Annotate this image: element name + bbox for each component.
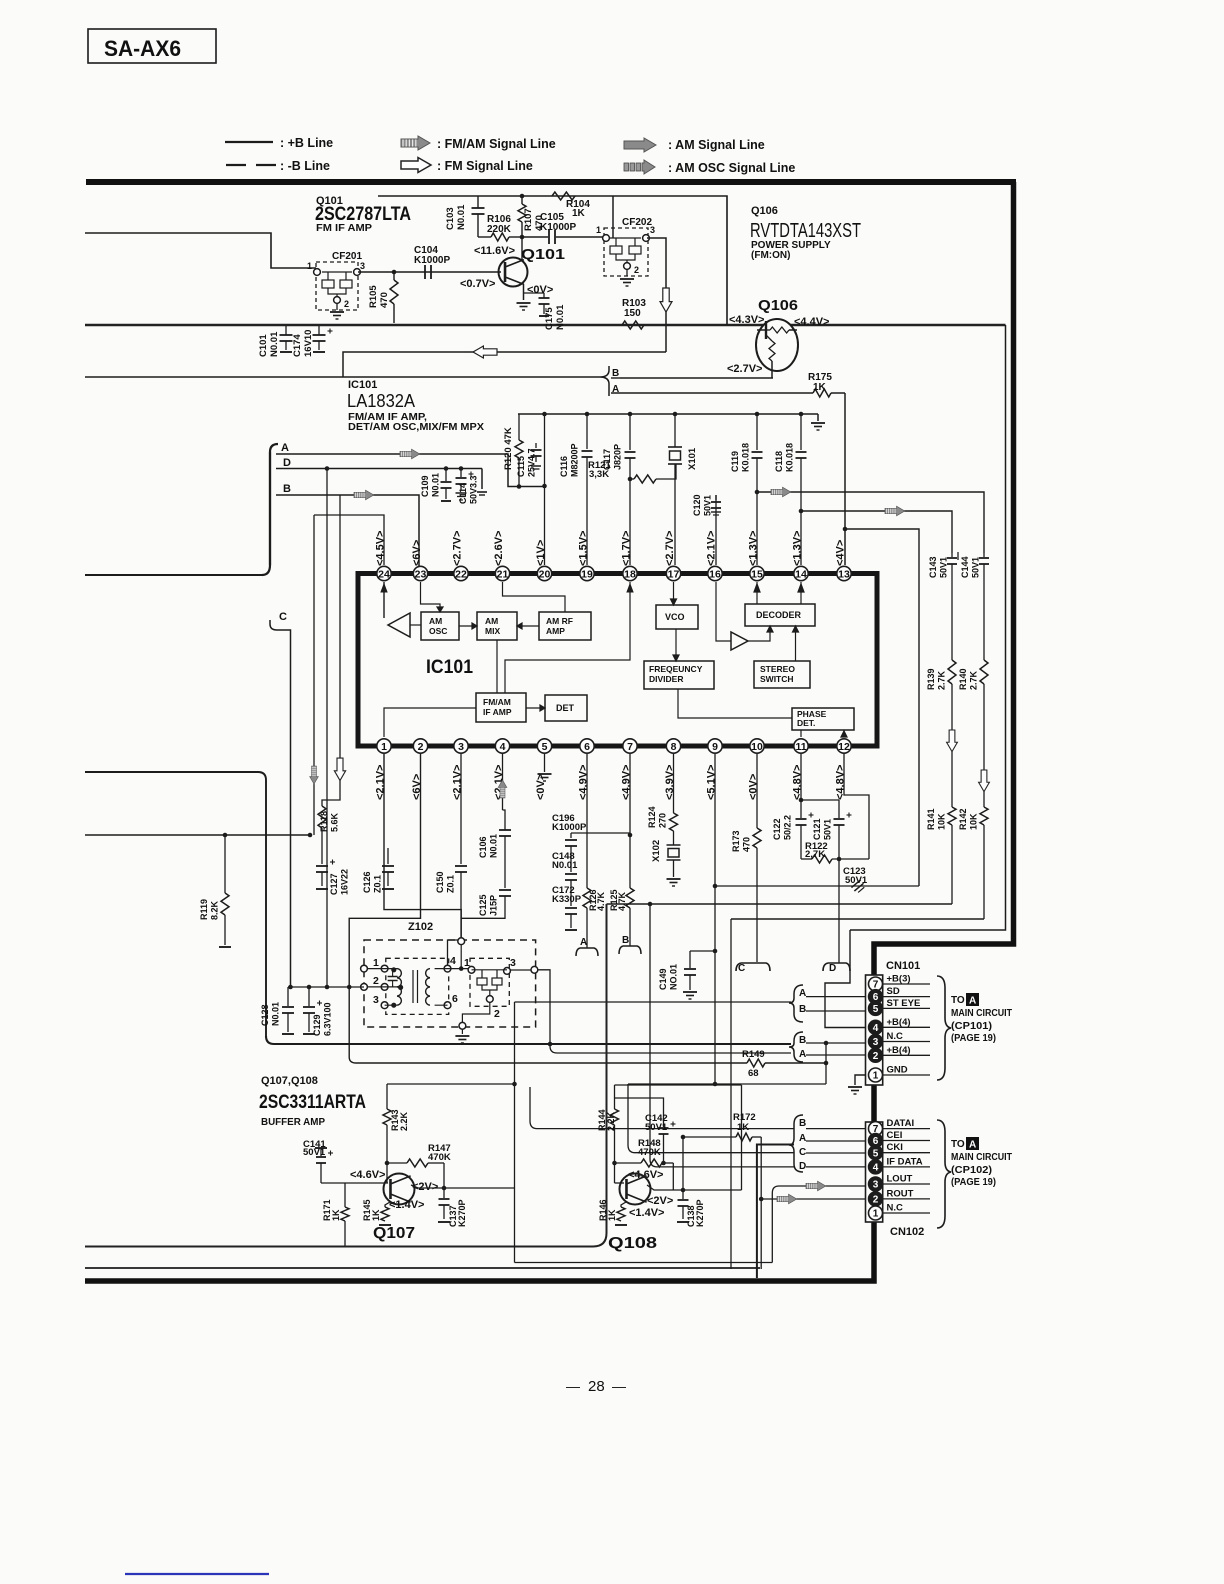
svg-text:C115: C115 xyxy=(516,456,526,477)
svg-text:3,3K: 3,3K xyxy=(589,469,609,480)
svg-text:19: 19 xyxy=(581,568,593,580)
resistor R144 xyxy=(614,1085,616,1109)
wire pin15 branch right y=492 xyxy=(755,490,760,495)
svg-text:C: C xyxy=(279,611,287,623)
Z102 terminal 2 xyxy=(381,984,388,991)
Z102 right filter dashed box xyxy=(470,958,509,1006)
legend AM signal arrow xyxy=(624,138,656,152)
svg-text:A: A xyxy=(799,1049,806,1060)
wire CF202 out down to FM line xyxy=(647,238,666,352)
svg-text:23: 23 xyxy=(415,568,427,580)
bracket B/A near Q106 xyxy=(600,366,609,396)
capacitor C141 xyxy=(315,1147,327,1149)
wire R141 column to y=904 line xyxy=(607,903,953,905)
svg-text:24: 24 xyxy=(378,568,390,580)
wire Q107 supply loop xyxy=(387,1083,515,1085)
wire pin4 column to C106 xyxy=(502,754,504,810)
svg-text:<3.9V>: <3.9V> xyxy=(664,765,676,800)
brace BACD before CN102 xyxy=(789,1115,803,1172)
wire R149 line continuation xyxy=(765,1062,826,1064)
svg-text:N0.01: N0.01 xyxy=(555,304,566,330)
svg-text:C129: C129 xyxy=(312,1014,322,1036)
wire FM signal return line y=352 xyxy=(343,352,666,377)
svg-text:B: B xyxy=(799,1118,806,1129)
wire AM OSC to AM MIX arrow xyxy=(459,625,477,627)
svg-text:SA-AX6: SA-AX6 xyxy=(104,36,181,61)
svg-text:C103: C103 xyxy=(445,207,456,230)
svg-text:(PAGE 19): (PAGE 19) xyxy=(951,1177,996,1188)
IC101 pin 17 xyxy=(666,566,680,580)
capacitor C105 to CF202 xyxy=(520,235,525,240)
svg-text:<1.7V>: <1.7V> xyxy=(621,531,633,566)
svg-text:<1V>: <1V> xyxy=(535,540,547,566)
Z102 winding junction dots xyxy=(391,967,396,972)
svg-text:<2.6V>: <2.6V> xyxy=(493,531,505,566)
wire B line y=495 xyxy=(276,495,419,573)
wire pin8 column xyxy=(673,754,675,813)
svg-text:4: 4 xyxy=(500,741,506,753)
IC101 pin 16 xyxy=(708,566,722,580)
svg-text:<2.1V>: <2.1V> xyxy=(452,765,464,800)
wire pin10 column xyxy=(756,754,758,828)
svg-text:A: A xyxy=(969,996,976,1007)
svg-text:<2.7V>: <2.7V> xyxy=(452,531,464,566)
svg-text:TO: TO xyxy=(951,995,965,1006)
svg-text:12: 12 xyxy=(838,741,850,753)
svg-text:Q106: Q106 xyxy=(758,297,798,314)
svg-text:C128: C128 xyxy=(260,1004,270,1026)
resistor R103 on rail xyxy=(622,321,644,329)
arrow AM on B line xyxy=(354,490,374,500)
svg-text:28: 28 xyxy=(588,1378,605,1395)
svg-text:DET.: DET. xyxy=(797,718,815,728)
wire ROUT line xyxy=(761,1198,866,1200)
wire pin24 up-over to x=314 xyxy=(314,515,384,565)
resistor R140 xyxy=(980,660,988,684)
svg-text:C: C xyxy=(799,1147,806,1158)
wire left antenna input to CF201 xyxy=(85,233,316,268)
svg-text:+B(3): +B(3) xyxy=(887,974,911,985)
svg-text:1: 1 xyxy=(307,261,312,271)
svg-text:D: D xyxy=(283,457,291,469)
CN102 pin 5 circle xyxy=(869,1146,883,1160)
Z102 filter ground path xyxy=(462,1003,489,1023)
CN101 pin 5 line and label ST EYE xyxy=(883,1007,930,1009)
svg-text:C127: C127 xyxy=(329,873,339,895)
svg-text:25V4.7: 25V4.7 xyxy=(527,448,537,477)
arrow FM open down on R139 column xyxy=(947,730,958,752)
filter CF202 xyxy=(604,228,648,276)
svg-text:—: — xyxy=(566,1378,580,1394)
resistor R172 wire xyxy=(683,1136,736,1138)
svg-text:CN102: CN102 xyxy=(890,1226,924,1238)
svg-text:4.7K: 4.7K xyxy=(596,891,606,911)
wire left line y=772 to vertical xyxy=(85,772,266,1036)
svg-text:1: 1 xyxy=(373,957,379,969)
wire pin16 to triangle to DECODER xyxy=(716,582,731,641)
svg-text:DET/AM OSC,MIX/FM MPX: DET/AM OSC,MIX/FM MPX xyxy=(348,422,484,433)
svg-text:(CP101): (CP101) xyxy=(951,1021,992,1032)
capacitor C148 xyxy=(570,846,572,872)
amp triangle AM OSC buffer xyxy=(388,613,410,637)
resistor R172 xyxy=(736,1133,752,1141)
svg-text:IC101: IC101 xyxy=(348,379,377,391)
transistor Q107 xyxy=(384,1174,415,1205)
svg-text:(FM:ON): (FM:ON) xyxy=(751,250,790,261)
svg-text:IF DATA: IF DATA xyxy=(887,1156,923,1167)
resistor R125 inline pin7 xyxy=(626,888,634,908)
svg-text:: -B Line: : -B Line xyxy=(280,159,330,173)
capacitor C117 xyxy=(629,414,631,450)
svg-text:CEI: CEI xyxy=(887,1130,903,1141)
svg-text:R140: R140 xyxy=(958,668,968,690)
transistor Q101 xyxy=(499,258,528,287)
bracket D under C121 xyxy=(823,963,850,971)
wire Q108 collector xyxy=(647,1185,742,1190)
resistor R141 xyxy=(948,807,956,825)
wire pin20 column xyxy=(544,414,546,565)
svg-text:<1.5V>: <1.5V> xyxy=(578,531,590,566)
transistor Q106 digital PNP xyxy=(756,319,798,371)
svg-text:CF202: CF202 xyxy=(622,217,652,228)
CN101 pin 3 line and label N.C xyxy=(883,1041,930,1043)
svg-text:K270P: K270P xyxy=(457,1199,467,1227)
svg-text:—: — xyxy=(612,1378,626,1394)
resistor R119 xyxy=(223,833,228,838)
svg-text:2: 2 xyxy=(873,1051,879,1062)
svg-text:ST EYE: ST EYE xyxy=(887,998,921,1009)
block STEREO SWITCH xyxy=(754,661,810,688)
svg-text:<2.7V>: <2.7V> xyxy=(727,363,762,375)
resistor R126 inline pin6 xyxy=(583,888,591,908)
resistor R175 xyxy=(813,389,831,397)
svg-text:C118: C118 xyxy=(774,451,784,472)
svg-text:K0.018: K0.018 xyxy=(785,443,795,472)
wire left line y=835 xyxy=(85,834,310,836)
CN102 pin 1 circle xyxy=(869,1206,883,1220)
svg-text:AM RF: AM RF xyxy=(546,616,573,626)
wire pin12 jog xyxy=(844,754,869,859)
wire VCO to FREQUENCY DIVIDER xyxy=(675,629,677,661)
resistor R143 xyxy=(386,1084,388,1109)
IC101 pin 11 xyxy=(794,739,808,753)
IC101 pin 5 xyxy=(537,739,551,753)
resistor R148 feedback xyxy=(612,1161,617,1166)
svg-text:R142: R142 xyxy=(958,808,968,830)
amp triangle pilot xyxy=(731,632,748,650)
arrowhead into pin18 bottom xyxy=(627,584,633,592)
svg-text:3: 3 xyxy=(873,1180,879,1191)
svg-text:<0V>: <0V> xyxy=(527,284,553,296)
svg-text:C109: C109 xyxy=(420,475,430,497)
svg-text:2.2K: 2.2K xyxy=(606,1111,616,1131)
vertical x=514.5 audio collector loop xyxy=(514,1002,516,1263)
svg-text:2: 2 xyxy=(418,741,424,753)
svg-text:Q107: Q107 xyxy=(373,1225,415,1242)
IC101 pin 6 xyxy=(580,739,594,753)
capacitor C150 on pin3 column xyxy=(460,754,462,864)
svg-text:16V22: 16V22 xyxy=(340,869,350,895)
svg-text:11: 11 xyxy=(795,741,806,753)
svg-text:R105: R105 xyxy=(368,285,379,308)
CN102 pin 3 circle xyxy=(869,1177,883,1191)
capacitor C137 xyxy=(443,1188,445,1198)
svg-text:470: 470 xyxy=(379,292,390,308)
svg-text:(CP102): (CP102) xyxy=(951,1165,992,1176)
IC101 pin 13 xyxy=(837,566,851,580)
svg-text:Q108: Q108 xyxy=(608,1235,657,1252)
svg-text:14: 14 xyxy=(795,568,807,580)
svg-text:N.C: N.C xyxy=(887,1031,904,1042)
svg-text:220K: 220K xyxy=(487,224,512,235)
node C bracket xyxy=(270,620,291,987)
wire pin15 to DECODER arrow xyxy=(756,582,758,604)
wire A to IC pin13 xyxy=(844,393,846,565)
vertical x=731 pass-through to bottom line xyxy=(730,919,732,1269)
block AM OSC xyxy=(421,612,459,640)
wire CN102 B feed from x=530 xyxy=(530,1087,794,1129)
svg-text:50V3.3: 50V3.3 xyxy=(469,475,479,504)
wire FM/AM IF AMP to DET arrow xyxy=(526,707,545,709)
svg-text:IF AMP: IF AMP xyxy=(483,707,512,717)
capacitor C122 xyxy=(800,800,802,818)
capacitor C118 on pin14 column xyxy=(800,414,802,450)
wire A line junction to pin20 xyxy=(545,485,547,487)
svg-text:A: A xyxy=(281,442,289,454)
svg-text:R173: R173 xyxy=(731,830,741,852)
svg-text:C149: C149 xyxy=(658,968,668,990)
legend -B line symbol xyxy=(226,164,246,166)
block PHASE DET xyxy=(792,708,854,730)
ground top rail xyxy=(817,414,819,421)
svg-text:<6V>: <6V> xyxy=(411,540,423,566)
svg-text:<5.1V>: <5.1V> xyxy=(706,765,718,800)
svg-text:Z0.1: Z0.1 xyxy=(446,875,456,893)
arrow AM striped ROUT xyxy=(777,1194,797,1204)
wire Q108 collector riser to R172 line xyxy=(682,1137,684,1190)
CN101 pin 4 circle xyxy=(869,1020,883,1034)
capacitor C120 stub on pin16 xyxy=(715,495,717,565)
Z102 right filter internals xyxy=(468,966,475,973)
svg-text:C101: C101 xyxy=(258,334,269,357)
svg-text:M8200P: M8200P xyxy=(570,443,580,477)
svg-text:STEREO: STEREO xyxy=(760,664,795,674)
svg-text:TO: TO xyxy=(951,1139,965,1150)
svg-text:16: 16 xyxy=(709,568,721,580)
svg-text:Z102: Z102 xyxy=(408,921,433,933)
CN101 pin 5 circle xyxy=(869,1001,883,1015)
svg-text:+B(4): +B(4) xyxy=(887,1045,911,1056)
svg-text:B: B xyxy=(799,1035,806,1046)
IC101 pin 7 xyxy=(623,739,637,753)
capacitor C138 xyxy=(682,1190,684,1199)
svg-text:1K: 1K xyxy=(572,208,586,219)
block VCO xyxy=(656,605,698,629)
crystal X102 xyxy=(673,831,675,845)
svg-text:50V1: 50V1 xyxy=(845,875,868,886)
svg-text:BUFFER AMP: BUFFER AMP xyxy=(261,1117,325,1128)
svg-text:Q107,Q108: Q107,Q108 xyxy=(261,1075,318,1087)
svg-text:R124: R124 xyxy=(647,806,657,828)
svg-text:J15P: J15P xyxy=(489,895,499,916)
svg-text:: FM/AM Signal Line: : FM/AM Signal Line xyxy=(437,137,556,151)
svg-text:X102: X102 xyxy=(651,840,662,862)
wire pin6 column xyxy=(586,754,588,888)
Z102 transformer core lines xyxy=(412,970,414,1003)
wire Q106 base to B line xyxy=(620,377,773,379)
svg-text:2.2K: 2.2K xyxy=(399,1111,409,1131)
resistor R122 xyxy=(812,855,832,863)
wire R148 corner to collector xyxy=(672,1163,674,1190)
CN101 brace to main circuit xyxy=(937,976,951,1080)
capacitor C106 xyxy=(503,810,506,830)
vertical B bus x=340 down to R118 xyxy=(322,495,340,806)
wire line y=886 pin9 to pin13 drop xyxy=(715,885,919,887)
svg-text:2SC2787LTA: 2SC2787LTA xyxy=(315,204,411,225)
svg-text:A: A xyxy=(799,1133,806,1144)
wire A line through R175 xyxy=(611,392,813,394)
IC101 designator pointer line xyxy=(420,677,452,700)
svg-text:<4.6V>: <4.6V> xyxy=(350,1169,385,1181)
Z102 terminal 4 xyxy=(444,965,451,972)
svg-text:N.C: N.C xyxy=(887,1203,904,1214)
svg-text:2: 2 xyxy=(344,299,349,309)
CN102 pin 6 circle xyxy=(869,1134,883,1148)
capacitor C121 xyxy=(838,800,840,818)
svg-text:R139: R139 xyxy=(926,668,936,690)
svg-text:13: 13 xyxy=(838,568,850,580)
svg-text:C119: C119 xyxy=(730,451,740,472)
IC101 pin 18 xyxy=(623,566,637,580)
resistor R118 xyxy=(318,806,326,828)
svg-text:9: 9 xyxy=(712,741,718,753)
svg-text:<4V>: <4V> xyxy=(835,540,847,566)
IC101 pin 22 xyxy=(454,566,468,580)
legend FM/AM signal arrow xyxy=(401,136,430,150)
wire y=1084 line xyxy=(628,1083,826,1085)
bracket C under pin10 xyxy=(736,963,770,971)
resistor R149 xyxy=(747,1059,765,1067)
wire LOUT line from audio bus xyxy=(772,1186,866,1263)
bracket B under pin7 xyxy=(619,946,641,954)
Z102 left transformer dashed box xyxy=(386,958,449,1014)
svg-text:20: 20 xyxy=(539,568,551,580)
svg-text:3: 3 xyxy=(873,1037,879,1048)
wire pin13 branch right y=529 xyxy=(843,527,848,532)
svg-text:DATAI: DATAI xyxy=(887,1118,915,1129)
resistor R104 on top rail xyxy=(552,192,575,200)
IC101 pin 2 xyxy=(413,739,427,753)
wire pin1 to FM/AM IF AMP xyxy=(384,708,476,737)
block FM/AM IF AMP xyxy=(476,693,526,722)
IC101 pin 3 xyxy=(454,739,468,753)
Z102 transformer primary winding xyxy=(397,969,401,978)
capacitor C115 xyxy=(535,414,537,446)
wire B to CN101 pin5 xyxy=(806,1008,866,1011)
IC101 pin 4 xyxy=(495,739,509,753)
Z102 terminal 6 xyxy=(444,1002,451,1009)
arrow AM striped up pin4 xyxy=(498,780,507,798)
capacitor C119 on pin15 column xyxy=(756,414,758,450)
bottom blue rule xyxy=(125,1573,269,1575)
filter CF201 xyxy=(316,262,358,310)
svg-text:16V10: 16V10 xyxy=(303,330,314,357)
wire A to CN101 pin2 xyxy=(806,1054,866,1056)
svg-text:K1000P: K1000P xyxy=(414,255,450,266)
+B bus top thick line xyxy=(86,179,1016,185)
vertical x=741.5 Q108 collector loop xyxy=(741,1085,743,1190)
arrow FM open down CF202 xyxy=(660,288,672,312)
svg-text:D: D xyxy=(799,1161,806,1172)
wire pin9 long column xyxy=(714,754,716,1084)
svg-text:DECODER: DECODER xyxy=(756,610,802,620)
svg-text:2.7K: 2.7K xyxy=(937,670,947,690)
svg-text:B: B xyxy=(799,1004,806,1015)
svg-text:2SC3311ARTA: 2SC3311ARTA xyxy=(259,1092,366,1113)
wire pin11 column xyxy=(800,754,802,800)
CN102 pin 2 line and label ROUT xyxy=(883,1198,930,1200)
resistor R142 xyxy=(980,807,988,825)
IC101 pin 12 xyxy=(837,739,851,753)
capacitor C125 xyxy=(499,889,511,891)
svg-text:18: 18 xyxy=(624,568,636,580)
svg-text:<2V>: <2V> xyxy=(647,1195,673,1207)
IC101 pin 8 xyxy=(666,739,680,753)
CN101 pin 6 line and label SD xyxy=(883,996,930,998)
svg-text:5: 5 xyxy=(873,1004,879,1015)
svg-text:Q106: Q106 xyxy=(751,205,778,217)
bracket ADB left bundle xyxy=(262,444,278,575)
IC101 pin 15 xyxy=(750,566,764,580)
svg-text:D: D xyxy=(829,963,836,974)
svg-text:X101: X101 xyxy=(687,447,698,470)
svg-text:C126: C126 xyxy=(362,871,372,893)
wire pin23 into AM OSC top xyxy=(421,582,441,612)
wire base Q107 xyxy=(321,1182,388,1184)
svg-text:10: 10 xyxy=(751,741,763,753)
wire Z102 output to brace A feed xyxy=(534,970,791,1053)
wire pin5 ground stub xyxy=(544,754,546,772)
svg-text:<4.8V>: <4.8V> xyxy=(792,765,804,800)
svg-text:8.2K: 8.2K xyxy=(210,900,220,920)
svg-text:N0.01: N0.01 xyxy=(271,1002,281,1026)
svg-text:R120 47K: R120 47K xyxy=(503,427,514,470)
svg-text:470K: 470K xyxy=(428,1152,451,1163)
capacitor C103 xyxy=(477,196,479,208)
svg-text:NO.01: NO.01 xyxy=(669,964,679,990)
legend +B line symbol xyxy=(225,141,273,143)
resistor R105 xyxy=(392,270,397,275)
svg-text:5: 5 xyxy=(542,741,548,753)
IC101 pin 9 xyxy=(708,739,722,753)
svg-text:7: 7 xyxy=(627,741,633,753)
ground rail mid line y=325 xyxy=(85,324,1006,327)
resistor R145 emitter xyxy=(385,1202,390,1207)
capacitor C129 xyxy=(308,987,310,1006)
svg-text:LOUT: LOUT xyxy=(887,1174,913,1185)
wire pin3 to Z102 terminal 4 xyxy=(448,940,462,965)
svg-text:C143: C143 xyxy=(928,556,938,578)
resistor R124 xyxy=(670,813,678,831)
CN102 pin 7 line and label DATAI xyxy=(883,1128,930,1130)
svg-text:470: 470 xyxy=(742,837,752,852)
block AM MIX xyxy=(477,612,517,640)
svg-text:N0.01: N0.01 xyxy=(269,331,280,357)
vertical x=650 to CN102 D feed xyxy=(650,904,794,1167)
arrow FM open down on R140 column xyxy=(979,770,990,792)
svg-text:SD: SD xyxy=(887,986,900,997)
svg-text:Q101: Q101 xyxy=(521,246,565,263)
